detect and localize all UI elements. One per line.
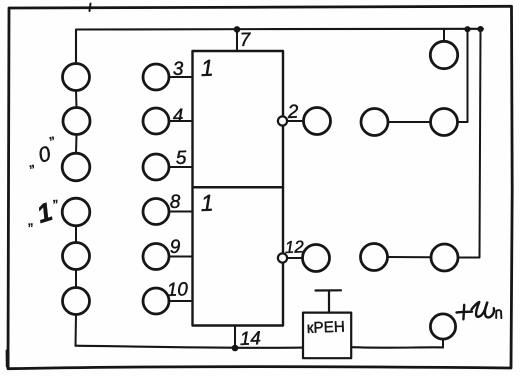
junction: top bus / pin 7 — [234, 26, 241, 33]
wire: top supply bus from „0" column to right side — [76, 29, 483, 64]
svg-text:5: 5 — [175, 148, 187, 169]
svg-text:9: 9 — [169, 237, 181, 258]
net label +Un (handwritten) — [457, 302, 502, 319]
input terminal pin 9 — [143, 244, 169, 270]
inversion bubble pin 12 — [278, 253, 287, 262]
wire: pin 8 stub — [169, 211, 193, 213]
wire: top-right terminal stub — [443, 29, 445, 42]
svg-text:1: 1 — [200, 190, 214, 216]
svg-text:2: 2 — [286, 102, 299, 123]
terminal „1"-2 — [63, 243, 90, 270]
logic element DD1.2 ("1" gate) — [193, 187, 284, 325]
wire: pin 12 output — [287, 257, 302, 259]
svg-text:4: 4 — [172, 106, 183, 127]
wire: pair B link — [388, 256, 432, 258]
wire: pair B right to top bus — [458, 29, 481, 257]
wire: „1"-1 to „1"-2 — [75, 226, 77, 243]
node label „0" — [27, 134, 57, 171]
terminal „0"-2 — [63, 108, 90, 135]
terminal pair B left — [361, 244, 388, 271]
svg-text:кРЕН: кРЕН — [307, 319, 346, 337]
wire: „1"-2 to „1"-3 — [75, 270, 77, 288]
input terminal pin 5 — [143, 154, 169, 180]
terminal pair B right — [431, 244, 458, 271]
wire: pin 3 stub — [169, 76, 193, 78]
node label „1" — [28, 196, 59, 229]
wire: pin 14 stub — [234, 326, 236, 349]
output terminal pin 2 — [304, 108, 331, 135]
terminal pair A left — [361, 109, 388, 136]
terminal „0"-1 — [63, 64, 90, 91]
wire: bottom bus to KREN — [76, 346, 304, 348]
junction: top bus / right vertical 2 — [477, 26, 483, 32]
KREN output terminal symbol — [316, 290, 342, 312]
voltage regulator KREN box — [303, 313, 351, 359]
wire: pin 2 output — [287, 120, 303, 122]
wire: pin 9 stub — [169, 256, 193, 258]
junction: top bus / right vertical 1 — [464, 26, 470, 32]
input terminal pin 3 — [143, 64, 169, 90]
wire: KREN to +Un terminal — [351, 346, 443, 349]
svg-text:1: 1 — [200, 55, 214, 81]
wire: pin 4 stub — [169, 120, 193, 122]
junction: bottom bus / pin 14 — [232, 345, 239, 352]
svg-text:3: 3 — [172, 59, 184, 80]
wire: „0"-2 to „0"-3 — [75, 135, 78, 154]
inversion bubble pin 2 — [278, 116, 287, 125]
terminal „1"-1 — [62, 198, 90, 226]
svg-text:„: „ — [28, 212, 34, 229]
svg-text:10: 10 — [166, 279, 188, 301]
input terminal pin 8 — [143, 199, 169, 225]
wire: „1"-3 down to bottom bus — [75, 315, 78, 346]
wire: pin 5 stub — [169, 166, 193, 168]
terminal „1"-3 — [63, 288, 90, 315]
svg-text:14: 14 — [239, 328, 261, 350]
terminal +Un — [430, 314, 455, 339]
wire: pin 10 stub — [169, 300, 193, 302]
terminal top-right — [430, 41, 457, 68]
wire: +Un terminal stub — [442, 339, 444, 347]
terminal „0"-3 — [62, 153, 90, 181]
output terminal pin 12 — [303, 245, 330, 272]
svg-text:”: ” — [53, 197, 59, 214]
svg-text:8: 8 — [169, 192, 181, 213]
wire: pair A right to top bus — [458, 29, 468, 122]
wire: pin 7 stub — [236, 29, 238, 51]
logic element DD1.1 ("1" gate) — [193, 51, 284, 187]
svg-text:12: 12 — [284, 237, 304, 257]
terminal pair A right — [431, 109, 458, 136]
input terminal pin 4 — [143, 108, 169, 134]
wire: pair A link — [388, 121, 431, 123]
wire: „0"-1 to „0"-2 — [75, 91, 78, 108]
input terminal pin 10 — [143, 288, 169, 314]
